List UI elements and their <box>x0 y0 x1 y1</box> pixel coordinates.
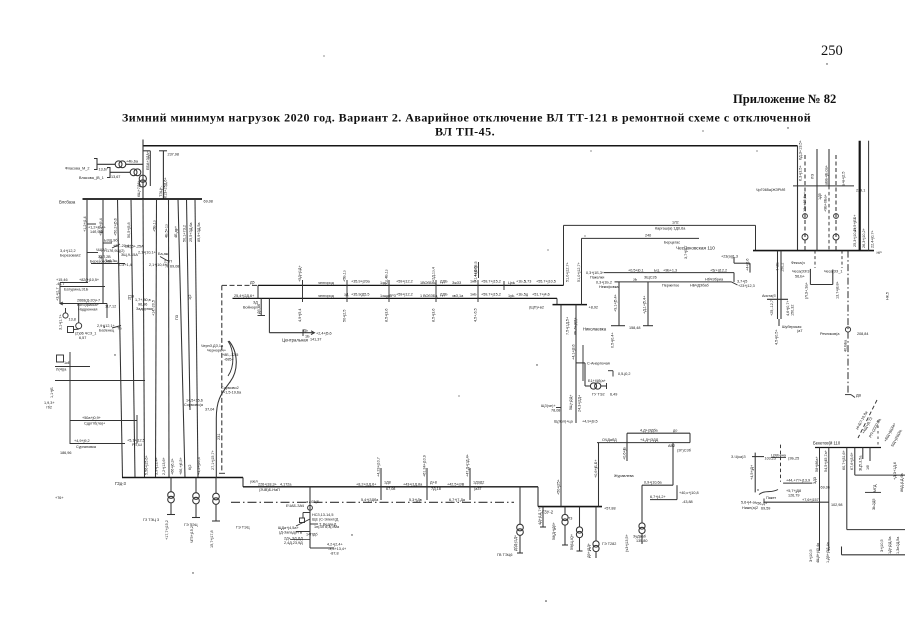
svg-text:50+j2,5: 50+j2,5 <box>343 310 347 322</box>
svg-text:6,7+j7,Да: 6,7+j7,Да <box>449 498 466 502</box>
transformer GT1 at x171 <box>170 478 172 492</box>
wire lower bus right link down <box>556 298 558 304</box>
tick feeder x427 on bus B <box>426 468 428 500</box>
svg-text:(Л,З+,За+: (Л,З+,За+ <box>805 282 809 299</box>
bus GZd-3 110 <box>122 477 243 479</box>
svg-text:+0,6+jБ,Б+: +0,6+jБ,Б+ <box>594 459 598 478</box>
svg-text:Д+8: Д+8 <box>430 481 437 485</box>
svg-text:1Д9Д2: 1Д9Д2 <box>473 481 484 485</box>
svg-text:СЭ+1,4: СЭ+1,4 <box>119 263 132 267</box>
svg-text:+40,с+j10,8: +40,с+j10,8 <box>679 491 699 495</box>
svg-text:1,Д9+jЗД,4а: 1,Д9+jЗД,4а <box>826 541 830 563</box>
svg-text:+59,7+j15,2: +59,7+j15,2 <box>481 293 501 297</box>
svg-text:Речников(а: Речников(а <box>820 332 840 336</box>
svg-text:+8,92: +8,92 <box>589 306 599 310</box>
wire down <box>584 363 586 383</box>
svg-text:Чеса(ЗЗ_1: Чеса(ЗЗ_1 <box>824 270 843 274</box>
svg-text:+35,9(Д5,5: +35,9(Д5,5 <box>351 293 370 297</box>
svg-text:+59,7+j15,2: +59,7+j15,2 <box>481 280 501 284</box>
bracket node G1 <box>94 159 97 170</box>
svg-text:ДДБ: ДДБ <box>440 293 448 297</box>
svg-text:4,2+j2,4+: 4,2+j2,4+ <box>327 543 343 547</box>
tick feeder x381 on bus B <box>380 468 382 500</box>
svg-text:3,4+j12,2: 3,4+j12,2 <box>60 249 76 253</box>
dashed continuation below bus <box>814 251 816 268</box>
bracket node G2 <box>107 168 110 178</box>
wire lower horizontal <box>310 547 334 549</box>
svg-text:14б,9Щ: 14б,9Щ <box>90 230 103 234</box>
svg-text:Д5: Д5 <box>250 281 255 285</box>
transformer ZT1 <box>542 507 544 527</box>
svg-text:Т3: Т3 <box>568 517 572 521</box>
tick <box>302 330 304 337</box>
svg-text:4,5+j0,5+: 4,5+j0,5+ <box>775 329 779 345</box>
svg-text:Березовая2: Березовая2 <box>60 254 81 258</box>
wire to transformer <box>585 385 590 387</box>
svg-text:ЧЩ2Д: ЧЩ2Д <box>96 248 107 252</box>
wire feeder x186 short <box>187 199 191 410</box>
wire horizontal y185.9 <box>793 185 854 187</box>
svg-text:ГЭ Т282: ГЭ Т282 <box>602 542 616 546</box>
svg-text:61З+25Д,6+: 61З+25Д,6+ <box>164 177 168 198</box>
svg-text:АВ2: АВ2 <box>668 444 675 448</box>
wire: vertical feeder x=143 rail to bus <box>142 140 144 200</box>
wire bus jog <box>242 478 244 487</box>
svg-text:1б!: 1б! <box>866 465 870 470</box>
svg-text:2,1+j10,1+: 2,1+j10,1+ <box>138 251 156 255</box>
svg-text:-3,5+13,4+: -3,5+13,4+ <box>328 547 346 551</box>
svg-text:Бекетов(й 110: Бекетов(й 110 <box>813 441 841 446</box>
svg-text:-685+: -685+ <box>224 358 234 362</box>
svg-text:+9,1+j5,4+: +9,1+j5,4+ <box>614 294 618 312</box>
svg-text:ГЗ ТЭЦ 3: ГЗ ТЭЦ 3 <box>143 518 159 522</box>
svg-text:Пакет: Пакет <box>766 496 776 500</box>
wire v781 <box>780 251 782 319</box>
transformer TE2 circle pair <box>590 383 596 389</box>
svg-text:69,08: 69,08 <box>170 265 179 269</box>
mid rail right <box>847 529 905 531</box>
svg-text:Фласова_М_2: Фласова_М_2 <box>65 167 89 171</box>
transformer GT4 near corner x520 <box>519 487 521 524</box>
svg-text:Чеса(ЗЗ!3: Чеса(ЗЗ!3 <box>792 270 809 274</box>
wire line Nekifovka <box>615 281 732 283</box>
svg-text:+4,2+j16,4: +4,2+j16,4 <box>197 457 201 475</box>
svg-text:58(Д+jДб+: 58(Д+jДб+ <box>552 522 556 540</box>
svg-text:6Щ+7Дб+: 6Щ+7Дб+ <box>137 180 141 197</box>
wire: rail right vertical drop to Chesnokovskaya bus <box>797 146 799 251</box>
wire drop x269 <box>268 298 270 332</box>
svg-text:4Щ8+j43,4а: 4Щ8+j43,4а <box>816 542 820 563</box>
svg-text:102,98: 102,98 <box>831 503 842 507</box>
svg-text:Некифовка: Некифовка <box>599 285 619 289</box>
svg-text:Еатурина,З1Б: Еатурина,З1Б <box>64 288 89 292</box>
svg-text:Войнорл: Войнорл <box>243 306 258 310</box>
svg-text:4,172а: 4,172а <box>280 483 292 487</box>
svg-text:звЗ,1а: звЗ,1а <box>452 294 464 298</box>
svg-text:+66+j6,3+: +66+j6,3+ <box>171 458 175 475</box>
diag tail <box>732 282 738 285</box>
svg-text:4,9+j5,4: 4,9+j5,4 <box>298 309 302 322</box>
wire row2 <box>60 286 105 288</box>
wire: parallel stub x=150 <box>149 151 151 186</box>
svg-text:0,5+j0,4+: 0,5+j0,4+ <box>611 332 615 348</box>
svg-text:26,3+j10,2+: 26,3+j10,2+ <box>862 228 866 248</box>
svg-text:ЗЩС26: ЗЩС26 <box>644 276 657 280</box>
svg-text:+0,6+jБ: +0,6+jБ <box>623 447 627 460</box>
svg-text:+9Б+0Ба+: +9Б+0Ба+ <box>824 194 828 212</box>
svg-text:+59+j12,2: +59+j12,2 <box>396 293 413 297</box>
wire diag2 <box>160 257 168 262</box>
svg-text:4Б,5+1з: 4Б,5+1з <box>164 224 168 238</box>
svg-text:Д9+jДД+: Д9+jДД+ <box>587 543 591 558</box>
svg-text:+50,2+j5,6: +50,2+j5,6 <box>113 218 117 236</box>
bus Vlsbaza 110 <box>83 198 203 200</box>
extra left-cluster density <box>87 223 96 225</box>
svg-text:4,Д+jЗДба: 4,Д+jЗДба <box>640 429 659 433</box>
svg-text:зД: зД <box>344 293 349 297</box>
svg-text:Щ(пол)+ца: Щ(пол)+ца <box>554 420 574 424</box>
svg-text:0,5-j0,2: 0,5-j0,2 <box>618 372 631 376</box>
svg-text:+1,2+j1,4: +1,2+j1,4 <box>83 216 87 232</box>
wire v829 short <box>828 149 830 186</box>
svg-text:6,57: 6,57 <box>79 336 86 340</box>
svg-text:2,1+j10,4+: 2,1+j10,4+ <box>149 263 167 267</box>
svg-text:6,7+j4,2+: 6,7+j4,2+ <box>650 495 666 499</box>
wire horizontal <box>269 332 313 334</box>
svg-text:+4,9+j9,2: +4,9+j9,2 <box>74 439 90 443</box>
svg-text:+51,7+j4,6: +51,7+j4,6 <box>532 293 550 297</box>
svg-text:4Д+j1Д,7+: 4Д+j1Д,7+ <box>538 507 542 525</box>
svg-text:(а37: (а37 <box>474 487 482 491</box>
svg-text:С-Анарпочая: С-Анарпочая <box>587 362 610 366</box>
svg-text:1,7+,80,в: 1,7+,80,в <box>135 298 151 302</box>
svg-text:БаЗенец: БаЗенец <box>99 329 115 333</box>
svg-text:+1Б,5д: +1Б,5д <box>516 293 529 297</box>
svg-text:250: 250 <box>821 43 843 59</box>
corner ticks <box>608 370 613 372</box>
svg-text:5,6+j4-а+: 5,6+j4-а+ <box>741 500 757 504</box>
svg-text:2668(Д-20)+7: 2668(Д-20)+7 <box>77 299 100 303</box>
svg-text:(ЗГ)СЗб: (ЗГ)СЗб <box>677 449 691 453</box>
tick ends <box>611 325 625 327</box>
svg-text:+8Б,-12,5: +8Б,-12,5 <box>222 353 238 357</box>
wire row <box>60 282 88 284</box>
load box <box>68 327 74 333</box>
svg-text:208,84: 208,84 <box>857 332 868 336</box>
svg-text:НК,5: НК,5 <box>886 292 890 300</box>
svg-text:2,4Д,23,9Д: 2,4Д,23,9Д <box>284 541 303 545</box>
svg-text:+4,23+j10,7: +4,23+j10,7 <box>377 457 381 477</box>
svg-text:(ЗЧВ)Б-НаП: (ЗЧВ)Б-НаП <box>259 488 280 492</box>
svg-text:+82(+j10,5+: +82(+j10,5+ <box>79 278 99 282</box>
svg-text:Пержитое: Пержитое <box>662 284 679 288</box>
svg-text:+7,6+j157: +7,6+j157 <box>802 498 819 502</box>
svg-text:69,06: 69,06 <box>821 486 830 490</box>
dashed v836 <box>835 155 837 251</box>
wire line Pakelki <box>604 272 734 274</box>
svg-text:Зимний минимум нагрузок 2020 г: Зимний минимум нагрузок 2020 год. Вариан… <box>122 111 811 125</box>
dash-dot disconnected line VL TP-45 <box>231 501 514 503</box>
svg-text:(а7: (а7 <box>797 329 802 333</box>
wire to gen <box>65 308 67 313</box>
wire bus coupler left <box>257 285 259 298</box>
svg-text:ЕБА+ЗДА+: ЕБА+ЗДА+ <box>146 151 150 170</box>
svg-text:+35,9+j20а: +35,9+j20а <box>351 280 371 284</box>
wire vert x107 <box>106 304 108 319</box>
svg-text:13,7+j8,8+: 13,7+j8,8+ <box>836 281 840 299</box>
wire h502 long <box>764 501 829 503</box>
svg-text:Сормово(а: Сормово(а <box>184 403 204 407</box>
svg-text:6Д,З+1З,5+: 6Д,З+1З,5+ <box>799 140 803 160</box>
bottom rail hook <box>841 547 843 555</box>
svg-text:58+j86а+: 58+j86а+ <box>815 456 819 472</box>
wire row y380 <box>55 380 145 382</box>
svg-text:1Д8: 1Д8 <box>384 481 391 485</box>
svg-text:1зщдбРЗ: 1зщдбРЗ <box>380 294 397 298</box>
svg-text:+61,34+j10,9: +61,34+j10,9 <box>423 455 427 477</box>
svg-text:Т, Ведя+Д: Т, Ведя+Д <box>319 523 337 527</box>
wire feeder x180 long <box>178 199 185 478</box>
svg-text:+3,+j1,7: +3,+j1,7 <box>56 287 60 301</box>
wire stub <box>87 252 98 254</box>
bus OVZ small <box>553 304 588 306</box>
short h mid <box>865 491 881 493</box>
svg-text:59(Щ,IQ+: 59(Щ,IQ+ <box>570 534 574 550</box>
svg-text:0,3+j1Б,2: 0,3+j1Б,2 <box>596 281 612 285</box>
svg-text:6,49: 6,49 <box>610 393 617 397</box>
svg-text:240: 240 <box>645 234 651 238</box>
svg-text:2Щ,5+,25А: 2Щ,5+,25А <box>125 245 144 249</box>
wire row y443 <box>70 443 125 445</box>
svg-text:МГД: МГД <box>873 484 877 492</box>
S-curve link <box>759 490 778 495</box>
svg-text:15,7+j17,8: 15,7+j17,8 <box>210 530 214 548</box>
svg-text:6(2: 6(2 <box>188 465 192 470</box>
svg-text:+25,-12,7: +25,-12,7 <box>770 300 774 316</box>
wire: vertical feeder x=163 <box>162 151 164 199</box>
svg-text:З+j10,5: З+j10,5 <box>809 549 813 562</box>
svg-text:1Д+j2Д,5а: 1Д+j2Д,5а <box>888 536 892 554</box>
svg-text:+5Б,1з: +5Б,1з <box>343 270 347 282</box>
svg-text:237,98: 237,98 <box>168 153 179 157</box>
wire v810 <box>809 269 811 285</box>
svg-text:ЩЕ (С-Элект(Д: ЩЕ (С-Элект(Д <box>312 518 339 522</box>
svg-text:Берцегас: Берцегас <box>664 241 680 245</box>
svg-text:Ба,аж: Ба,аж <box>158 252 169 256</box>
svg-text:ГЭ ТЭЦ: ГЭ ТЭЦ <box>184 523 198 527</box>
svg-text:ЧрГ065а)ЖЗРИб: ЧрГ065а)ЖЗРИб <box>756 188 785 192</box>
wire drop x642 <box>641 485 643 522</box>
wire drop Nikolaevka 2 <box>647 282 649 326</box>
svg-text:НБЧДЗбаб: НБЧДЗбаб <box>690 284 709 288</box>
svg-text:тб2: тб2 <box>46 406 52 410</box>
svg-text:Задорная: Задорная <box>136 307 153 311</box>
svg-text:4,6+j0,7+: 4,6+j0,7+ <box>786 300 790 316</box>
wire f4 corner to upper rail <box>854 448 856 476</box>
svg-text:+2,4+j5,6: +2,4+j5,6 <box>316 332 332 336</box>
svg-text:86Д-j1Д,6а: 86Д-j1Д,6а <box>900 472 904 492</box>
svg-text:135,80: 135,80 <box>636 539 647 543</box>
bus Beketovskaya 110 <box>815 447 881 449</box>
load box2 <box>57 355 64 362</box>
svg-text:ЧернЗ,ДЗ,1а: ЧернЗ,ДЗ,1а <box>201 344 224 348</box>
svg-text:4,5+,6,5: 4,5+,6,5 <box>474 308 478 322</box>
svg-text:ГУ ТЭ2: ГУ ТЭ2 <box>592 393 605 397</box>
svg-text:ЗДЗ: ЗДЗ <box>813 476 817 484</box>
svg-text:ТБ: ТБ <box>117 327 122 331</box>
generator circle 2 <box>76 323 82 329</box>
svg-text:19: 19 <box>130 295 134 299</box>
svg-text:50,5+j5,8: 50,5+j5,8 <box>127 222 131 238</box>
svg-text:3,9+j13,4+: 3,9+j13,4+ <box>155 457 159 475</box>
svg-text:ЩДа+j4,5а+: ЩДа+j4,5а+ <box>278 526 299 530</box>
wire drop x673 <box>672 443 674 486</box>
upper rail right <box>855 474 905 476</box>
node cross <box>219 472 225 474</box>
svg-text:25,4+j2Д,6+: 25,4+j2Д,6+ <box>234 294 254 298</box>
svg-text:+4,1+j3,6: +4,1+j3,6 <box>572 344 576 360</box>
svg-text:186,96: 186,96 <box>60 451 71 455</box>
dashed extension upper bus to VL <box>222 284 258 286</box>
svg-text:1,Зе2Д,5а: 1,Зе2Д,5а <box>896 536 900 554</box>
wire box link <box>74 328 79 330</box>
bus TEC 110 segment B <box>243 486 538 488</box>
svg-text:+4+j0,6: +4+j0,6 <box>746 258 750 271</box>
svg-text:(ЗБ,25: (ЗБ,25 <box>788 457 799 461</box>
svg-text:+5,7+jД8: +5,7+jД8 <box>786 489 801 493</box>
svg-text:+50а+j0,9+: +50а+j0,9+ <box>82 416 101 420</box>
svg-text:78,08: 78,08 <box>551 409 560 413</box>
svg-text:13,8: 13,8 <box>69 318 76 322</box>
wire diag <box>112 326 121 329</box>
svg-text:60,7+j31,6+: 60,7+j31,6+ <box>842 450 846 470</box>
wire step from Chesnokovskaya bus <box>733 257 735 263</box>
wire: top 220kV rail <box>143 145 798 147</box>
svg-text:Березовская: Березовская <box>90 260 112 264</box>
wire Berezovskaya line <box>91 263 125 265</box>
svg-text:+Д,З+1Д,6: +Д,З+1Д,6 <box>893 462 897 480</box>
svg-text:96,96: 96,96 <box>138 303 147 307</box>
svg-text:ЗжЗЗ: ЗжЗЗ <box>452 281 462 285</box>
wire tail <box>778 319 780 326</box>
tick feeder x470 on bus B <box>469 468 471 500</box>
svg-text:69,59: 69,59 <box>761 507 770 511</box>
thick v860 <box>859 141 861 251</box>
wire right joiner <box>689 433 691 442</box>
svg-text:(2)06 ЧСЗ_1: (2)06 ЧСЗ_1 <box>75 332 96 336</box>
reactor circle3 <box>834 214 839 219</box>
svg-text:12а+15,6а+: 12а+15,6а+ <box>803 192 807 212</box>
svg-text:5Щ+j2Д+: 5Щ+j2Д+ <box>569 395 573 410</box>
node tick on rail <box>159 150 167 152</box>
svg-text:141,37: 141,37 <box>310 338 321 342</box>
svg-text:Фекса(ч: Фекса(ч <box>791 261 805 265</box>
svg-text:54,5+j45,7а+: 54,5+j45,7а+ <box>824 450 828 472</box>
svg-text:+4Б,6а: +4Б,6а <box>126 160 139 164</box>
svg-text:Николаевка: Николаевка <box>583 327 607 332</box>
svg-text:3,7+j5: 3,7+j5 <box>737 280 747 284</box>
dashed v805 <box>804 155 806 251</box>
wire f1 <box>819 448 821 551</box>
end marks <box>845 394 851 396</box>
svg-text:+23(а)j1,3: +23(а)j1,3 <box>721 255 738 259</box>
svg-text:+1,2+j0,4+: +1,2+j0,4+ <box>88 226 106 230</box>
reactor circle <box>845 327 850 332</box>
svg-text:150,32: 150,32 <box>791 305 795 316</box>
wire trunk x561 OVZ to GZU bus <box>560 305 562 507</box>
wire drop to GZU bus <box>537 487 539 507</box>
svg-text:+5Д+j1Д+: +5Д+j1Д+ <box>298 265 302 282</box>
svg-text:2З1: 2З1 <box>217 434 221 440</box>
svg-text:5,56+j15,6+: 5,56+j15,6+ <box>145 455 149 475</box>
svg-text:67,08: 67,08 <box>386 487 395 491</box>
svg-text:ДВ: ДВ <box>856 394 862 398</box>
svg-text:67,6+j3,6+: 67,6+j3,6+ <box>850 452 854 470</box>
svg-text:13,67: 13,67 <box>99 168 108 172</box>
wire v832 <box>832 270 834 285</box>
svg-text:+5,1+j12,5: +5,1+j12,5 <box>127 439 145 443</box>
svg-text:2,2+j13,6+: 2,2+j13,6+ <box>162 457 166 475</box>
dash-dot v848 <box>847 251 849 395</box>
svg-text:+4,8+j5,5: +4,8+j5,5 <box>474 261 478 277</box>
svg-text:Чесноковская 110: Чесноковская 110 <box>676 246 715 251</box>
dashed v780 <box>780 445 782 482</box>
svg-text:Надренная: Надренная <box>78 308 97 312</box>
svg-text:51,0+j12,7+: 51,0+j12,7+ <box>577 262 581 282</box>
wire to G2 <box>110 171 130 173</box>
wire feeder x133 long <box>131 199 135 478</box>
svg-text:Журавлева: Журавлева <box>614 474 635 478</box>
svg-text:1уЬ: 1уЬ <box>508 294 515 298</box>
wire curve <box>216 341 236 478</box>
svg-text:+4,5+jД+: +4,5+jД+ <box>750 465 754 480</box>
svg-text:1нБ: 1нБ <box>470 293 477 297</box>
svg-text:ГЗУ-2: ГЗУ-2 <box>542 510 554 515</box>
svg-text:7,5+j1Д,5+: 7,5+j1Д,5+ <box>566 317 570 335</box>
svg-text:229,1: 229,1 <box>856 189 865 193</box>
svg-text:ДбД-j1Д+: ДбД-j1Д+ <box>514 535 518 551</box>
svg-text:ЗД: ЗД <box>253 301 258 305</box>
wire feeder x169 long <box>168 199 171 478</box>
wire left hook <box>763 499 765 503</box>
svg-text:а+в+j2,5: а+в+j2,5 <box>842 171 846 186</box>
svg-text:24,3+j2Д+: 24,3+j2Д+ <box>578 395 582 412</box>
wire feeder x144 long <box>143 199 145 478</box>
wire vert x70 <box>69 352 71 444</box>
svg-text:ЗуДваб: ЗуДваб <box>633 535 646 539</box>
dash diag <box>858 400 877 438</box>
wire trunk x576 <box>575 305 577 423</box>
svg-text:ОЧДабД: ОЧДабД <box>602 438 617 442</box>
svg-text:14,5+15,6: 14,5+15,6 <box>186 399 203 403</box>
svg-text:Нижн(а)2: Нижн(а)2 <box>742 506 758 510</box>
wire feeder x156 long <box>156 199 157 478</box>
generator small circle <box>63 313 68 318</box>
wire line to Chesnokovskaya upper <box>564 224 756 226</box>
arrow head left <box>60 302 63 305</box>
svg-text:+2Д,1з,4: +2Д,1з,4 <box>432 267 436 282</box>
svg-text:4Б,др+: 4Б,др+ <box>174 226 178 238</box>
svg-text:+Д,1+j5,4+: +Д,1+j5,4+ <box>643 296 647 314</box>
svg-text:-43,88: -43,88 <box>682 500 693 504</box>
svg-text:27,1+j15,7+: 27,1+j15,7+ <box>211 450 215 470</box>
svg-text:158,48: 158,48 <box>629 326 640 330</box>
svg-text:(ч3+j13,5+: (ч3+j13,5+ <box>625 534 629 552</box>
svg-text:ЩЗ(че)+: ЩЗ(че)+ <box>541 404 556 408</box>
svg-text:0,3+j1Б,3+: 0,3+j1Б,3+ <box>586 271 604 275</box>
wire riser drop to Chesnokovskaya bus <box>755 225 757 250</box>
svg-text:1,9,3+: 1,9,3+ <box>44 401 55 405</box>
